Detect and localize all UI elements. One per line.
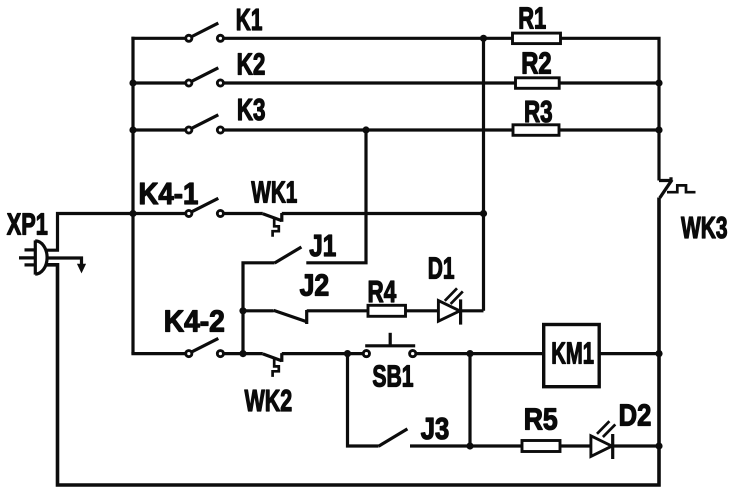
svg-text:K3: K3 [237,92,266,127]
switch K4-2 [186,338,224,356]
node left bus / K3 [129,126,136,133]
thermal switch WK3 [659,177,696,198]
wire vertical from K3 row down to J1 right end [306,130,366,263]
wire WK1 to node B [282,212,484,215]
switch K1 [186,23,224,41]
resistor R2 [516,78,560,89]
wire SB1 to KM1 [416,352,544,355]
svg-text:WK2: WK2 [245,383,293,418]
node K3 row / vertical A [362,126,369,133]
wire K2 row middle segment [224,81,516,84]
node WK1 row / vertical B [480,210,487,217]
relay contact J1 [243,247,301,354]
svg-text:D1: D1 [428,250,455,285]
svg-text:WK3: WK3 [681,210,728,245]
svg-text:WK1: WK1 [251,174,297,209]
wire J2 to R4 [307,309,368,312]
wire K3 row left segment [133,128,186,131]
pushbutton SB1 [363,333,416,357]
wire K1 row right segment with corner to right bus [561,38,660,180]
node left bus / K2 [129,79,136,86]
wire K1 row middle segment [224,37,513,40]
node left bus / K4-1 [129,210,136,217]
thermal switch WK2 [263,353,282,377]
wire D2 to right bus [613,444,659,447]
svg-text:D2: D2 [619,398,652,433]
relay contact J3 [379,429,408,446]
wire K3 row right segment [559,128,659,131]
thermal switch WK1 [263,213,282,237]
switch K3 [186,115,224,133]
wire K3 row middle segment [224,128,513,131]
wire K4-2 row left segment [131,352,185,355]
wire vertical from K1 row down to D1 row [482,37,485,311]
relay contact J2 [243,310,307,324]
svg-text:R3: R3 [524,94,553,129]
node right bus / R3 [655,126,662,133]
node right bus / D2 [655,442,662,449]
arrow head on XP1 lead [77,264,86,274]
svg-text:K2: K2 [237,47,266,82]
wire K4-2 to WK2 [224,352,263,355]
svg-text:SB1: SB1 [372,359,413,394]
wire left bus vertical [131,37,134,354]
node J3 row / vertical E [466,442,473,449]
svg-text:XP1: XP1 [7,207,48,242]
wire XP1 upper pin to K4-1 row [45,214,185,251]
wire K1 row left segment [131,37,185,40]
wire J3 right segment to R5 [410,444,522,447]
svg-text:J2: J2 [300,268,330,303]
svg-text:K4-1: K4-1 [139,176,199,211]
switch K4-1 [186,198,224,216]
svg-text:R5: R5 [524,402,558,437]
svg-text:K4-2: K4-2 [164,304,225,339]
wire K2 row right segment [559,81,659,84]
wire R5 to D2 [560,444,591,447]
svg-text:J1: J1 [309,228,336,263]
contactor coil KM1 [544,325,600,387]
wire K4-1 to WK1 [224,212,263,215]
wire D1 to node B [461,309,484,312]
node SB1 left / vertical D [344,350,351,357]
LED D2 [591,421,615,459]
node KM1 input / vertical E [466,350,473,357]
resistor R3 [513,125,559,136]
wire vertical KM1-input node down to J3/R5 row [468,354,471,446]
node right bus / KM1 [655,350,662,357]
wire WK2 to SB1 [282,352,363,355]
resistor R1 [513,33,561,44]
plug XP1 [19,240,47,274]
wire XP1 arrow lead [47,258,82,266]
node K4-2 row / vertical C [239,350,246,357]
svg-text:R2: R2 [521,45,551,80]
resistor R4 [368,305,406,316]
wire vertical node SB1-left down to J3 row [348,354,379,446]
node J2 / vertical C [239,307,246,314]
LED D1 [438,288,462,324]
svg-text:J3: J3 [421,411,450,446]
switch K2 [186,68,224,86]
svg-text:K1: K1 [236,2,263,37]
wire KM1 to right bus [599,352,659,355]
wire R4 to D1 [406,309,438,312]
svg-text:R1: R1 [518,1,546,36]
svg-text:KM1: KM1 [551,336,594,371]
wire K2 row left segment [133,81,186,84]
resistor R5 [522,441,560,452]
wire XP1 lower pin down to bottom bus and bottom bus to right bus [45,198,659,486]
node right bus / R2 [655,79,662,86]
node K1 row / vertical B [480,35,487,42]
